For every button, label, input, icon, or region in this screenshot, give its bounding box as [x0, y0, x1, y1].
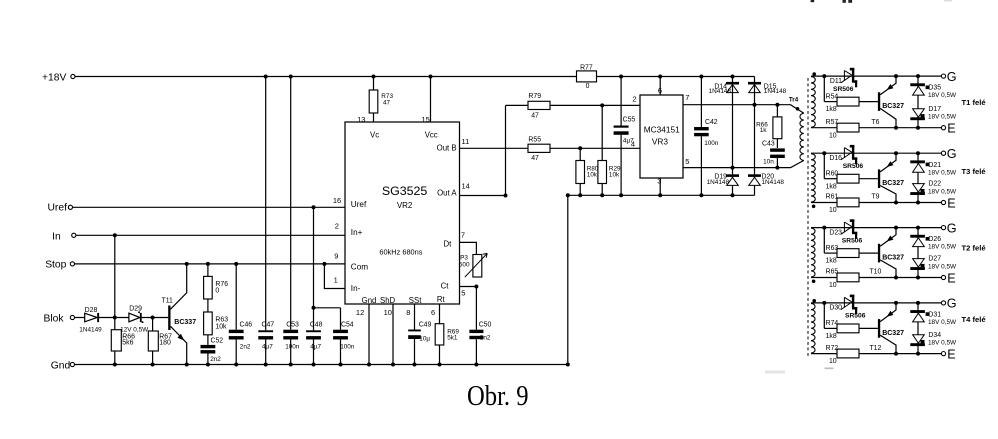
diode D15 1N4148 [748, 82, 787, 95]
svg-text:500: 500 [459, 262, 470, 269]
svg-text:D27: D27 [928, 256, 941, 263]
wire emitter rail T9 stage [811, 201, 941, 205]
node E terminal T9 stage [941, 196, 955, 210]
svg-text:Dt: Dt [443, 240, 452, 249]
svg-text:Gnd: Gnd [51, 361, 71, 372]
svg-text:Gnd: Gnd [362, 296, 377, 305]
diode D20 1N4148 [748, 174, 784, 186]
wire MC out B (pin 5) line to transformer [683, 160, 804, 169]
svg-text:100n: 100n [340, 344, 355, 351]
svg-text:4: 4 [631, 139, 635, 148]
svg-text:18V 0,5W: 18V 0,5W [928, 339, 957, 346]
svg-text:47: 47 [531, 155, 539, 162]
resistor R76 0 [204, 276, 229, 299]
wire jumper Com to In- (pin 1) [324, 264, 345, 289]
svg-text:10: 10 [829, 207, 837, 214]
zener D31 18V 0.5W [910, 310, 957, 326]
svg-text:C50: C50 [479, 322, 492, 329]
wire pin 15 Vcc to +18V rail [430, 77, 432, 123]
svg-text:18V 0,5W: 18V 0,5W [928, 188, 957, 195]
transistor T9 BC327 [871, 153, 904, 202]
capacitor C46 2n2 [229, 264, 253, 365]
transformer Tr4 primary phase dot [796, 107, 800, 111]
svg-text:BC327: BC327 [882, 180, 904, 187]
node E terminal T12 stage [941, 347, 955, 361]
svg-text:R63: R63 [826, 245, 839, 252]
svg-text:18V 0,5W: 18V 0,5W [928, 169, 957, 176]
svg-text:ShD: ShD [380, 296, 396, 305]
svg-text:5k1: 5k1 [447, 335, 458, 342]
capacitor C43 10n (snubber) [762, 140, 785, 167]
zener D34 18V 0.5W [910, 332, 957, 347]
svg-text:BC327: BC327 [882, 103, 904, 110]
transformer Tr4 primary winding [800, 113, 804, 160]
wire MC pin 6 to +18V rail [659, 77, 661, 96]
svg-text:Uref: Uref [48, 202, 68, 213]
svg-text:G: G [947, 221, 957, 235]
svg-text:Vcc: Vcc [425, 130, 438, 139]
svg-text:D17: D17 [928, 106, 941, 113]
wire Uref line to pin 16 [73, 205, 346, 209]
capacitor C47 4u7 electrolytic [258, 77, 274, 365]
resistor R66 5k6 [111, 330, 135, 365]
svg-text:T9: T9 [871, 194, 879, 201]
wire gate rail T12 stage [811, 301, 941, 305]
capacitor C42 100n [694, 77, 719, 196]
resistor R54 1k8 (base) [824, 76, 878, 113]
svg-text:47: 47 [383, 99, 391, 106]
wire In line to pin 2 [76, 233, 345, 237]
node +18V input terminal and label [42, 72, 75, 83]
svg-text:10k: 10k [609, 172, 620, 179]
svg-text:5k6: 5k6 [122, 340, 133, 347]
svg-text:E: E [947, 196, 955, 210]
svg-text:Rt: Rt [437, 295, 446, 304]
svg-text:10: 10 [829, 282, 837, 289]
node E terminal T10 stage [941, 271, 955, 285]
node Stop input terminal and label [45, 259, 74, 270]
zener D35 18V 0.5W [910, 83, 957, 99]
transformer phase dot for T6 winding [812, 72, 816, 76]
wire gate rail T9 stage [811, 151, 941, 155]
svg-text:SR506: SR506 [845, 313, 866, 320]
svg-text:C48: C48 [310, 322, 323, 329]
wire pin 10 ShD to ground rail [392, 304, 394, 365]
resistor R66 1k (snubber) [756, 105, 782, 148]
wire R76 to R63 [207, 299, 209, 312]
resistor R80 10k [576, 148, 599, 195]
svg-text:BC327: BC327 [882, 330, 904, 337]
svg-text:4µ7: 4µ7 [262, 344, 273, 351]
svg-text:D29: D29 [129, 306, 142, 313]
svg-text:MC34151: MC34151 [644, 125, 680, 135]
svg-text:1N4149: 1N4149 [79, 326, 102, 333]
svg-text:1k8: 1k8 [826, 106, 837, 113]
resistor R63 1k8 (base) [824, 228, 878, 265]
wire Uref to C48/C54 node [312, 207, 341, 330]
svg-text:+18V: +18V [42, 72, 66, 83]
resistor R65 10 (series emitter) [826, 269, 859, 290]
zener D21 18V 0.5W [910, 160, 957, 176]
svg-text:Out B: Out B [437, 144, 457, 153]
node G terminal T10 stage [941, 221, 956, 235]
svg-text:T10: T10 [869, 269, 881, 276]
svg-text:In: In [52, 232, 61, 243]
svg-text:3: 3 [657, 177, 661, 186]
svg-text:D34: D34 [928, 332, 941, 339]
wire In to Blok-node vertical [114, 235, 116, 329]
svg-text:18V 0,5W: 18V 0,5W [928, 319, 957, 326]
diode D19 1N4148 [707, 174, 739, 186]
svg-text:18V 0,5W: 18V 0,5W [928, 114, 957, 121]
node Uref input terminal and label [48, 202, 73, 213]
svg-text:2n2: 2n2 [210, 356, 221, 363]
svg-text:T6: T6 [871, 119, 879, 126]
svg-text:10: 10 [829, 132, 837, 139]
zener D17 18V 0.5W [910, 106, 957, 121]
svg-text:C52: C52 [211, 337, 224, 344]
svg-text:R65: R65 [826, 269, 839, 276]
svg-text:D26: D26 [928, 236, 941, 243]
svg-text:SR506: SR506 [833, 86, 854, 93]
svg-text:E: E [947, 121, 955, 135]
svg-text:R79: R79 [528, 93, 541, 100]
resistor R74 1k8 (base) [824, 303, 878, 340]
diode D23 SR506 [829, 219, 862, 244]
zener D27 18V 0.5W [910, 256, 957, 271]
svg-text:1k: 1k [760, 127, 768, 134]
svg-text:G: G [947, 147, 957, 161]
svg-text:BC337: BC337 [174, 319, 196, 326]
svg-text:1k8: 1k8 [826, 333, 837, 340]
wire emitter rail T12 stage [811, 352, 941, 356]
svg-text:R72: R72 [826, 345, 839, 352]
svg-text:100n: 100n [285, 344, 300, 351]
svg-text:Obr. 9: Obr. 9 [467, 381, 529, 412]
diode D11 SR506 [830, 68, 857, 93]
svg-text:D30: D30 [829, 305, 842, 312]
svg-text:10k: 10k [587, 172, 598, 179]
svg-text:D21: D21 [928, 162, 941, 169]
svg-text:5: 5 [685, 157, 689, 166]
wire Out A (pin 14) line [460, 105, 508, 197]
node In input terminal and label [52, 232, 76, 243]
resistor R63 10k [204, 312, 229, 335]
svg-text:18V 0,5W: 18V 0,5W [928, 92, 957, 99]
resistor R29 10k [598, 105, 621, 195]
svg-text:P3: P3 [460, 254, 468, 261]
transistor T12 BC327 [869, 303, 904, 354]
svg-text:10n: 10n [763, 159, 774, 166]
wire Out B (pin 11) line [460, 146, 641, 150]
svg-text:VR2: VR2 [397, 201, 413, 210]
svg-text:2: 2 [335, 222, 339, 231]
transistor T10 BC327 [869, 228, 904, 278]
svg-text:E: E [947, 347, 955, 361]
svg-text:47: 47 [531, 113, 539, 120]
wire pin 7 Dt to P3 [460, 242, 477, 254]
svg-text:10k: 10k [215, 323, 227, 330]
resistor R60 1k8 (base) [824, 153, 878, 190]
svg-text:VR3: VR3 [652, 137, 669, 147]
svg-text:T3 felé: T3 felé [962, 167, 986, 176]
transformer phase dot for T9 winding [812, 205, 816, 209]
svg-text:R60: R60 [826, 170, 839, 177]
resistor R57 10 (series emitter) [826, 119, 859, 139]
svg-text:12: 12 [356, 308, 364, 317]
svg-text:15: 15 [422, 115, 430, 124]
svg-text:2n2: 2n2 [480, 334, 491, 341]
wire Blok line [75, 316, 169, 320]
wire emitter rail T6 stage [811, 126, 941, 130]
svg-text:1N4148: 1N4148 [707, 179, 730, 186]
svg-text:9: 9 [334, 251, 338, 260]
capacitor C52 2n2 [201, 337, 224, 364]
wire pin 6 Rt via R69 [439, 304, 441, 324]
transformer Tr4 core [807, 78, 809, 356]
svg-text:7: 7 [461, 230, 465, 239]
diode D14 1N4148 [709, 82, 739, 95]
svg-text:60kHz 680ns: 60kHz 680ns [379, 248, 422, 257]
wire zener clamp vertical T10 stage [917, 228, 919, 278]
svg-text:C54: C54 [341, 322, 354, 329]
wire D15/D20 clamp vertical [754, 77, 756, 196]
svg-text:C46: C46 [240, 322, 253, 329]
wire Stop to R76 [207, 264, 209, 277]
wire Gnd rail [75, 363, 570, 367]
svg-text:Blok: Blok [44, 313, 65, 324]
node Gnd input terminal and label [51, 361, 75, 372]
svg-text:SR506: SR506 [843, 163, 864, 170]
svg-text:10µ: 10µ [419, 335, 430, 342]
capacitor C49 10u electrolytic [408, 322, 431, 365]
wire R79 to MC34151 pin 2 [506, 103, 641, 107]
capacitor C48 4u7 electrolytic [306, 322, 323, 365]
wire +18V rail [75, 76, 755, 78]
node G terminal T12 stage [941, 297, 956, 311]
svg-text:1k8: 1k8 [826, 183, 837, 190]
node E terminal T6 stage [941, 121, 955, 135]
wire zener clamp vertical T9 stage [917, 153, 919, 202]
transformer phase dot for T12 winding [812, 299, 816, 303]
svg-text:14: 14 [462, 181, 470, 190]
svg-text:Com: Com [351, 262, 368, 271]
svg-text:D35: D35 [928, 85, 941, 92]
svg-text:E: E [947, 271, 955, 285]
svg-text:C42: C42 [705, 119, 718, 126]
svg-text:R55: R55 [528, 137, 541, 144]
transformer Tr4 secondary winding for T12 [811, 303, 815, 353]
faint scan artifacts [765, 0, 952, 374]
svg-text:D31: D31 [928, 312, 941, 319]
svg-text:C49: C49 [419, 322, 432, 329]
svg-text:1N4148: 1N4148 [709, 88, 732, 95]
wire zener clamp vertical T6 stage [917, 76, 919, 128]
svg-text:D22: D22 [928, 181, 941, 188]
svg-text:SR506: SR506 [842, 237, 863, 244]
resistor R61 10 (series emitter) [826, 194, 859, 215]
svg-text:2n2: 2n2 [240, 344, 251, 351]
diode D16 SR506 [829, 145, 863, 170]
svg-text:R74: R74 [826, 320, 839, 327]
svg-text:0: 0 [215, 287, 219, 294]
wire gate rail T6 stage [811, 74, 941, 78]
svg-text:D28: D28 [85, 307, 98, 314]
svg-text:16: 16 [333, 196, 341, 205]
svg-text:6: 6 [431, 308, 435, 317]
svg-text:T11: T11 [162, 298, 174, 305]
svg-text:C53: C53 [286, 322, 299, 329]
svg-text:7: 7 [685, 93, 689, 102]
op-amp U1 SG3525 PWM controller body [345, 122, 460, 305]
svg-text:1k8: 1k8 [826, 258, 837, 265]
transformer Tr4 secondary winding for T6 [811, 77, 815, 128]
svg-text:Ct: Ct [441, 282, 450, 291]
svg-text:In-: In- [351, 284, 361, 293]
wire pin 5 Ct line [460, 285, 479, 330]
capacitor C53 100n [283, 77, 300, 365]
wire R63 to C52 [207, 335, 209, 345]
svg-text:18V 0,5W: 18V 0,5W [928, 263, 957, 270]
IC U2 MC34151 driver body [640, 95, 683, 178]
wire emitter rail T10 stage [811, 276, 941, 280]
svg-text:18V 0,5W: 18V 0,5W [928, 244, 957, 251]
wire Stop line to pin 9 (Com) [75, 262, 346, 266]
svg-text:Tr4: Tr4 [789, 96, 799, 103]
svg-text:T2 felé: T2 felé [962, 244, 986, 253]
junction dots on +18V rail [264, 75, 735, 79]
svg-text:R54: R54 [826, 93, 839, 100]
wire MC out A (pin 7) line to transformer [683, 103, 804, 114]
svg-text:5: 5 [461, 289, 465, 298]
svg-text:1N4148: 1N4148 [764, 88, 787, 95]
svg-text:Vc: Vc [370, 130, 379, 139]
wire ground return line (MC34151 side) [566, 193, 755, 364]
node Blok input terminal and label [44, 313, 75, 324]
svg-text:0: 0 [586, 83, 590, 90]
zener D22 18V 0.5W [910, 181, 957, 196]
transistor T11 BC337 [162, 264, 197, 365]
capacitor C54 100n [333, 308, 355, 365]
svg-text:R77: R77 [580, 64, 593, 71]
wire Blok node to R67 [152, 318, 154, 332]
svg-text:Stop: Stop [45, 259, 66, 270]
svg-text:SG3525: SG3525 [382, 184, 428, 198]
transistor T6 BC327 [871, 76, 904, 128]
svg-text:10: 10 [829, 358, 837, 365]
wire gate rail T10 stage [811, 226, 941, 230]
resistor R72 10 (series emitter) [826, 345, 859, 365]
wire zener clamp vertical T12 stage [917, 303, 919, 354]
resistor R55 47 (series Out B) [528, 137, 550, 163]
capacitor C55 4u7 electrolytic [614, 77, 636, 196]
resistor R79 47 (series Out A) [528, 93, 550, 120]
svg-text:R61: R61 [826, 194, 839, 201]
wire pin 8 SSt via C49 [414, 304, 416, 330]
svg-text:C47: C47 [262, 322, 275, 329]
svg-text:C55: C55 [623, 116, 636, 123]
resistor R73 47 (Vc feed) [369, 77, 393, 123]
potentiometer P3 500 [459, 253, 487, 277]
svg-text:11: 11 [462, 137, 470, 146]
node G terminal T6 stage [941, 70, 956, 84]
svg-text:D16: D16 [829, 155, 842, 162]
diode D30 SR506 [829, 295, 865, 320]
zener D29 12V 0.5W [120, 306, 149, 334]
node G terminal T9 stage [941, 147, 956, 161]
svg-text:R57: R57 [826, 119, 839, 126]
wire pin 12 Gnd to ground rail [368, 304, 370, 365]
zener D26 18V 0.5W [910, 235, 957, 251]
cropped text remnant top edge [811, 0, 853, 3]
transformer phase dot for T10 winding [812, 280, 816, 284]
svg-text:T12: T12 [869, 345, 881, 352]
svg-text:100n: 100n [704, 140, 719, 147]
svg-text:1: 1 [334, 276, 338, 285]
diode D28 1N4149 [79, 307, 102, 333]
capacitor C50 2n2 [469, 322, 491, 365]
svg-text:G: G [947, 297, 957, 311]
svg-text:8: 8 [406, 308, 410, 317]
svg-text:180: 180 [159, 340, 171, 347]
transformer Tr4 secondary winding for T9 [811, 154, 815, 202]
svg-text:SSt: SSt [409, 296, 422, 305]
svg-text:1N4148: 1N4148 [762, 179, 785, 186]
svg-text:G: G [947, 70, 957, 84]
transformer Tr4 secondary winding for T10 [811, 228, 815, 277]
svg-text:BC327: BC327 [882, 255, 904, 262]
resistor R69 5k1 [435, 324, 459, 365]
svg-text:C43: C43 [762, 140, 775, 147]
svg-text:D11: D11 [830, 78, 842, 85]
resistor R67 180 [148, 331, 172, 365]
svg-text:13: 13 [357, 115, 365, 124]
resistor R77 0 (series +18V rail) [577, 64, 597, 90]
svg-text:10: 10 [384, 308, 392, 317]
svg-text:In+: In+ [351, 228, 363, 237]
svg-text:2: 2 [632, 94, 636, 103]
wire MC pin 3 to ground line [659, 178, 661, 195]
svg-text:4µ7: 4µ7 [310, 344, 321, 351]
wire D14/D19 clamp vertical [732, 77, 734, 196]
svg-text:T4 felé: T4 felé [962, 315, 986, 324]
svg-text:T1 felé: T1 felé [962, 98, 986, 107]
svg-text:Out A: Out A [437, 188, 457, 197]
svg-text:Uref: Uref [351, 200, 367, 209]
svg-text:D23: D23 [829, 229, 842, 236]
